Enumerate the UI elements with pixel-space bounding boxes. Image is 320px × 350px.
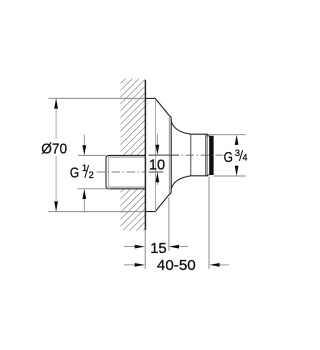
svg-text:Ø70: Ø70 [41,140,67,157]
svg-text:G: G [224,150,233,166]
svg-text:15: 15 [150,241,166,257]
svg-text:40-50: 40-50 [157,257,196,274]
svg-text:G: G [70,166,79,182]
svg-text:3: 3 [235,148,240,158]
svg-text:4: 4 [242,153,247,163]
svg-text:2: 2 [89,170,94,180]
svg-text:10: 10 [149,157,165,173]
